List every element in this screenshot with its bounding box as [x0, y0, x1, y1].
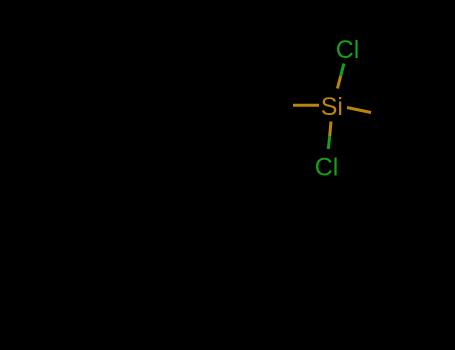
bond Si to lower Cl, Si half: [330, 122, 331, 137]
bond Si to methyl (right): [347, 108, 371, 113]
svg-text:Cl: Cl: [336, 36, 360, 64]
bond Si to upper Cl, Cl half: [341, 64, 344, 77]
svg-text:Cl: Cl: [315, 154, 339, 182]
wire bond from chain to Si (left stub): [293, 104, 319, 107]
bond Si to upper Cl, Si half: [337, 76, 340, 89]
svg-text:Si: Si: [321, 93, 343, 121]
bond Si to lower Cl, Cl half: [328, 136, 329, 149]
